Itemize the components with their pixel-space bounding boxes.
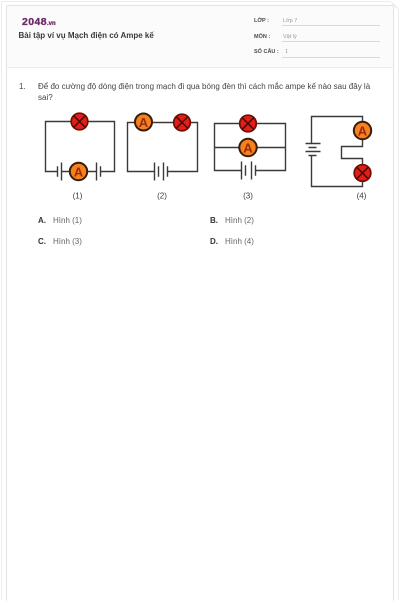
bulb L1 (lamp, circuit 1) [71,113,88,130]
field SỐ CÂU [254,49,279,55]
circuit 4 loop wire [312,117,363,187]
bulb L3 (lamp, circuit 3) [240,115,257,132]
svg-text:(4): (4) [357,192,367,201]
svg-text:(2): (2) [157,192,167,201]
answer D [210,237,254,246]
bulb L4 (lamp, circuit 4) [354,165,371,182]
battery cell B1a (left of A1): short + long plates [58,163,62,181]
question number [19,82,26,91]
subtitle [19,31,154,40]
circuit 2 loop wire [128,123,198,172]
answer A [38,216,82,225]
svg-text:(3): (3) [243,192,253,201]
bulb L2 (lamp, circuit 2) [174,114,191,131]
svg-text:A: A [139,115,149,130]
ammeter A1 (circuit 1) [70,163,87,180]
circuit 1 loop wire [46,122,115,172]
battery B4 (vertical stack): long-short-long-short plates [306,144,321,156]
svg-text:A: A [243,140,253,155]
ammeter A4 (circuit 4) [354,122,371,139]
field MÔN [254,34,270,40]
battery B2: two cells long-short-long-short [155,163,168,181]
battery B3: two cells long-short-long-short [242,162,256,180]
ammeter A3 (circuit 3) [239,139,256,156]
svg-text:A: A [74,164,84,179]
field LỚP [254,18,269,24]
logo 2048.vn [22,16,56,28]
answer B [210,216,254,225]
battery cell B1b (right of A1): long + short plates [97,163,101,181]
ammeter A2 (circuit 2) [135,114,152,131]
answer C [38,237,82,246]
circuit 3 loop wire [215,124,286,171]
page corner fold (top-right) [391,0,400,9]
svg-text:(1): (1) [73,192,83,201]
svg-text:A: A [358,123,368,138]
